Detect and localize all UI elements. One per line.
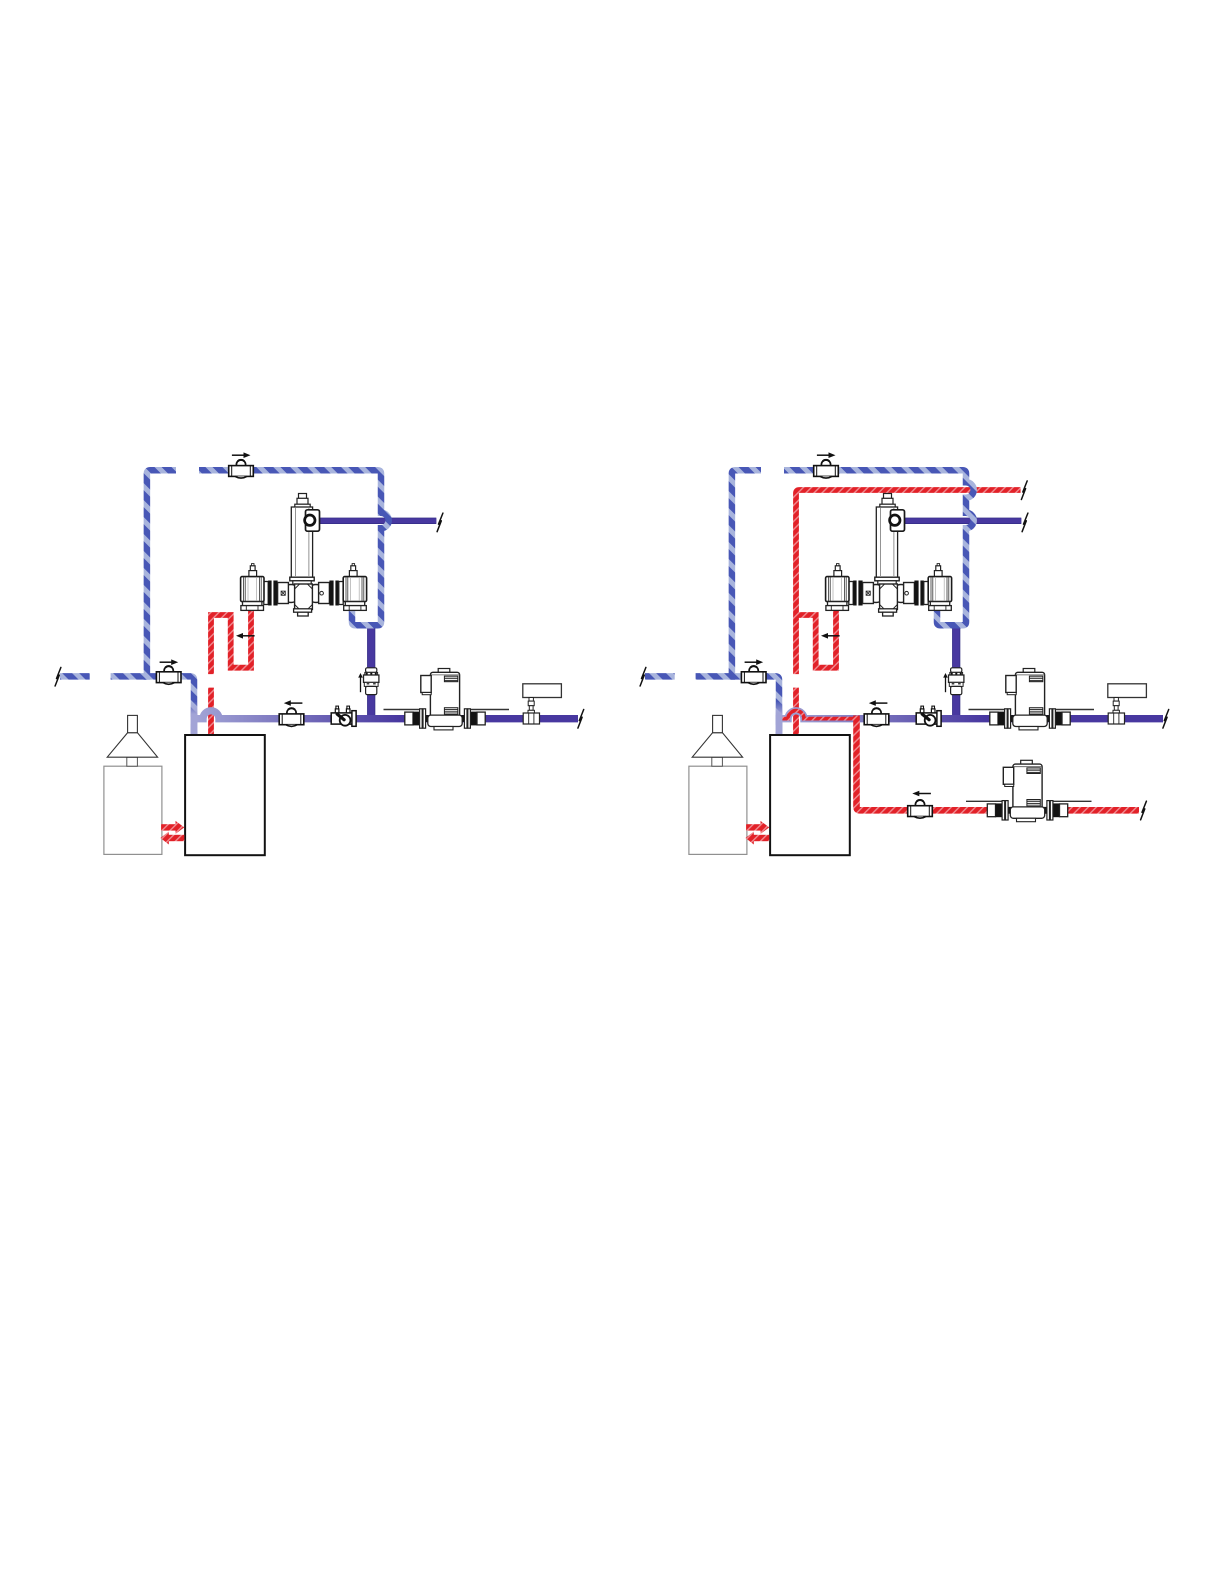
wire: thin red hot overlay on circulator run with hop — [782, 711, 857, 719]
check valve on purple drop — [358, 668, 379, 695]
pipe break at mixed supply end — [437, 513, 443, 532]
boiler and indirect water heater — [104, 715, 265, 855]
circulator pump on DHW loop — [966, 760, 1092, 821]
wire: red striped boiler supply zigzag (thermal trap) — [211, 608, 251, 674]
pipe break at cold return end — [640, 667, 646, 686]
purge valve on circulator run — [916, 706, 941, 726]
ball valve on DHW loop — [908, 800, 933, 818]
ball valve on circulator run — [864, 708, 889, 726]
pipe break at mixed supply end — [1022, 513, 1028, 532]
wire: blue striped top header right part, right riser with hop over purple, U-bend to valve — [199, 470, 389, 625]
wire: purple drop pipe from blue U-bend down to circulator run — [367, 624, 375, 719]
wire: blue striped left riser and top header left part — [147, 470, 176, 680]
wire: red striped stub into boiler top — [793, 688, 799, 736]
ball valve on circulator run — [279, 708, 304, 726]
pipe break at hot supply header end — [1021, 481, 1027, 500]
wire: purple drop pipe from blue U-bend down to circulator run — [952, 624, 960, 719]
flow arrow at zigzag — [821, 633, 840, 639]
labeled box with air vent — [1108, 684, 1147, 724]
pipe break at circulator run end — [1163, 710, 1169, 729]
flow arrow at zigzag — [236, 633, 255, 639]
flow arrow above circulator run valve — [284, 700, 303, 706]
pipe break at cold return end — [55, 667, 61, 686]
boiler and indirect water heater — [689, 715, 850, 855]
pipe break at circulator run end — [578, 710, 584, 729]
check valve on purple drop — [943, 668, 964, 695]
labeled box with air vent — [523, 684, 562, 724]
wire: red striped boiler supply zigzag (thermal trap) — [798, 608, 836, 668]
wire: red striped hot supply header and riser — [796, 490, 1021, 674]
wire: red striped stub into boiler top — [208, 688, 214, 736]
ball valve on cold return — [156, 666, 181, 684]
mixing valve assembly U2 — [826, 494, 952, 617]
stripe fade into lavender at boiler inlet — [191, 702, 198, 736]
wire: blue striped cold return into boiler, with corner down — [696, 676, 779, 736]
flow arrow above circulator run valve — [869, 700, 888, 706]
flow arrow above cold return valve — [745, 659, 764, 665]
pipe break at DHW loop end — [1141, 801, 1147, 820]
wire: blue striped top header right part, right riser with hops over red and purple, U-bend to valve — [784, 470, 974, 625]
wire: blue striped cold return, far-left segment with break — [645, 673, 675, 680]
circulator pump — [384, 669, 510, 730]
wire: purple mixed-supply pipe from mixing valve side port — [314, 518, 436, 524]
circulator pump on heating run — [969, 669, 1095, 730]
wire: purple mixed-supply pipe from mixing valve side port — [899, 518, 1021, 524]
flow arrow above top header valve — [232, 452, 251, 458]
purge valve on circulator run — [331, 706, 356, 726]
ball valve on top header — [229, 460, 254, 478]
wire: red striped DHW loop down and across — [857, 716, 1140, 811]
wire: lavender-to-purple circulator run with hop over red stub — [194, 711, 578, 719]
wire: blue striped left riser and top header left part — [732, 470, 761, 680]
ball valve on top header — [814, 460, 839, 478]
mixing valve assembly U1 — [241, 494, 367, 617]
stripe fade into lavender at boiler inlet — [776, 702, 783, 736]
flow arrow above DHW valve — [912, 791, 931, 797]
wire: blue striped cold return into boiler, with corner down — [111, 676, 194, 736]
wire: lavender-to-purple circulator run with hop over red stub — [779, 711, 1163, 719]
flow arrow above cold return valve — [160, 659, 179, 665]
flow arrow above top header valve — [817, 452, 836, 458]
wire: blue striped cold return, far-left segment with break — [60, 673, 90, 680]
ball valve on cold return — [741, 666, 766, 684]
